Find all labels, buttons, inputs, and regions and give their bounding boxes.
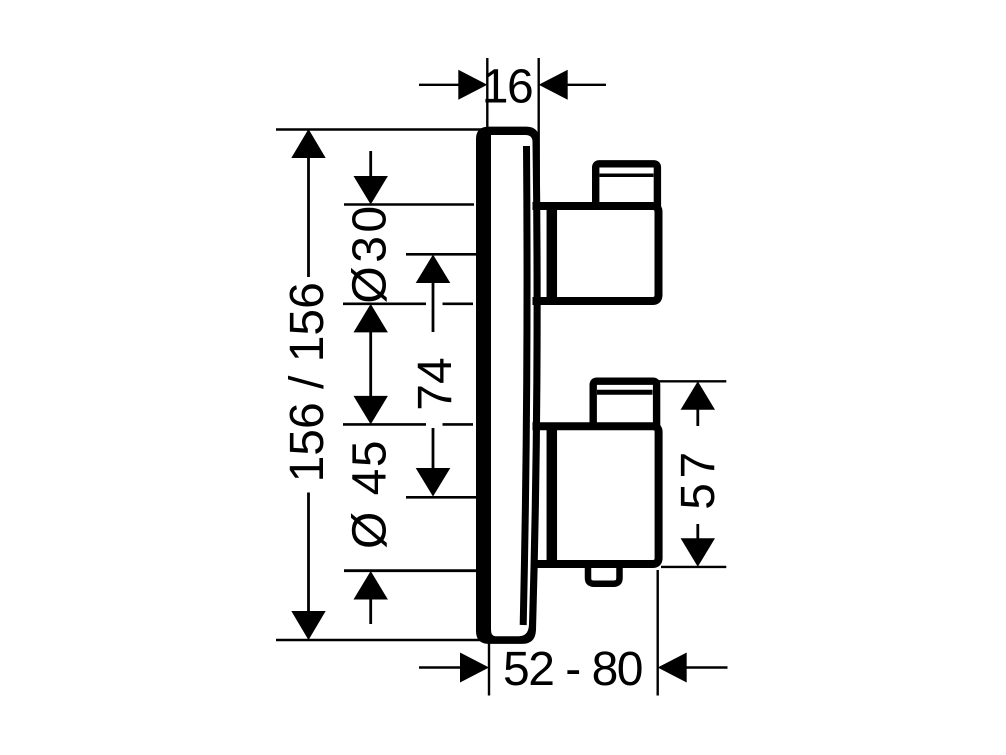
lower handle sleeve bar <box>547 423 558 568</box>
arrowhead Ø30 top (points down) <box>354 176 388 205</box>
dimension line 52-80 left segment <box>419 666 461 668</box>
lower handle body outline <box>533 426 659 564</box>
plate inner rim contour line <box>523 146 527 625</box>
tick Ø45 lower <box>344 569 477 572</box>
escutcheon plate outer (side profile) <box>476 127 541 644</box>
dimension Ø45 lower tail stem <box>369 598 372 624</box>
tick Ø45 upper <box>343 423 426 426</box>
dimension 16 extension line right <box>538 58 540 203</box>
svg-text:156 / 156: 156 / 156 <box>281 282 334 482</box>
dimension 57 extension line top <box>656 380 726 382</box>
arrowhead Ø30 bottom (points up) <box>354 304 388 333</box>
tick Ø30 upper <box>344 203 474 206</box>
arrowhead 16 right <box>539 70 568 100</box>
valve stop tab below lower handle <box>588 566 620 584</box>
dimension line 16 left segment <box>419 84 459 86</box>
dimension 52-80 extension line right <box>657 570 659 696</box>
arrowhead 57 top (points up) <box>681 381 715 410</box>
arrowhead 52-80 left <box>460 653 489 683</box>
arrowhead 74 top (points up) <box>416 255 451 284</box>
extension line top (156) <box>276 128 483 130</box>
arrowhead 74 bottom (points down) <box>416 468 451 497</box>
tick 74 upper (handle axis) <box>406 253 476 256</box>
upper handle sleeve bar <box>547 203 558 305</box>
arrowhead Ø45 top (points down) <box>354 396 388 425</box>
dimension Ø30 upper tail stem <box>369 151 372 177</box>
dimension 52-80 extension line left <box>488 638 490 696</box>
arrowhead 16 left <box>458 70 487 100</box>
dimension 57 lower stem <box>696 524 699 540</box>
svg-text:74: 74 <box>409 357 462 410</box>
svg-text:16: 16 <box>482 61 532 114</box>
svg-text:57: 57 <box>672 447 725 509</box>
arrowhead Ø45 bottom (points up) <box>354 571 388 600</box>
dimension 74 lower stem <box>432 428 435 469</box>
lower knob outline <box>593 381 656 428</box>
dimension 74 upper stem <box>432 282 435 332</box>
svg-text:Ø 45: Ø 45 <box>344 439 397 549</box>
svg-text:52 - 80: 52 - 80 <box>503 643 642 696</box>
upper knob outline <box>596 164 658 208</box>
dimension line 16 right segment <box>567 84 606 86</box>
lower knob inner line <box>597 390 653 395</box>
dimension line 156/156 upper stem <box>307 155 310 277</box>
arrowhead 57 bottom (points down) <box>681 538 715 567</box>
arrowhead 156 bottom <box>291 611 325 640</box>
dimension 16 extension line left <box>486 58 488 131</box>
arrowhead 156 top <box>291 129 325 158</box>
arrowhead 52-80 right <box>658 653 687 683</box>
escutcheon plate inner face <box>491 135 534 636</box>
shared stem between Ø30 and Ø45 <box>369 331 372 396</box>
dimension 57 extension line bottom <box>661 566 726 568</box>
tick 74 lower (handle axis) <box>406 496 476 499</box>
dimension line 52-80 right segment <box>686 666 728 668</box>
upper handle body outline <box>533 206 659 301</box>
dimension line 156/156 lower stem <box>307 493 310 615</box>
svg-text:Ø30: Ø30 <box>344 202 397 303</box>
dimension 57 upper stem <box>696 409 699 426</box>
tick Ø30 lower <box>343 302 426 305</box>
upper knob inner line <box>600 173 654 177</box>
extension line bottom (156) <box>276 639 484 641</box>
